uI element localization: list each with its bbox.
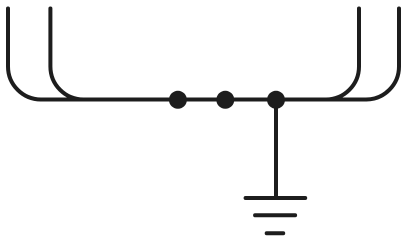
- ground bar 3: [267, 231, 284, 235]
- wire ground stem: [274, 100, 278, 198]
- ground bar 2: [255, 213, 295, 217]
- junction dot J2: [216, 91, 234, 109]
- junction dot J1: [169, 91, 187, 109]
- wire W1 outer-left: [8, 9, 41, 100]
- junction dot J3: [267, 91, 285, 109]
- wire W2 inner-left: [50, 9, 83, 100]
- ground bar 1: [246, 196, 306, 200]
- wire bus net: [41, 98, 366, 102]
- wire W3 inner-right: [326, 9, 359, 100]
- wire W4 outer-right: [366, 9, 399, 100]
